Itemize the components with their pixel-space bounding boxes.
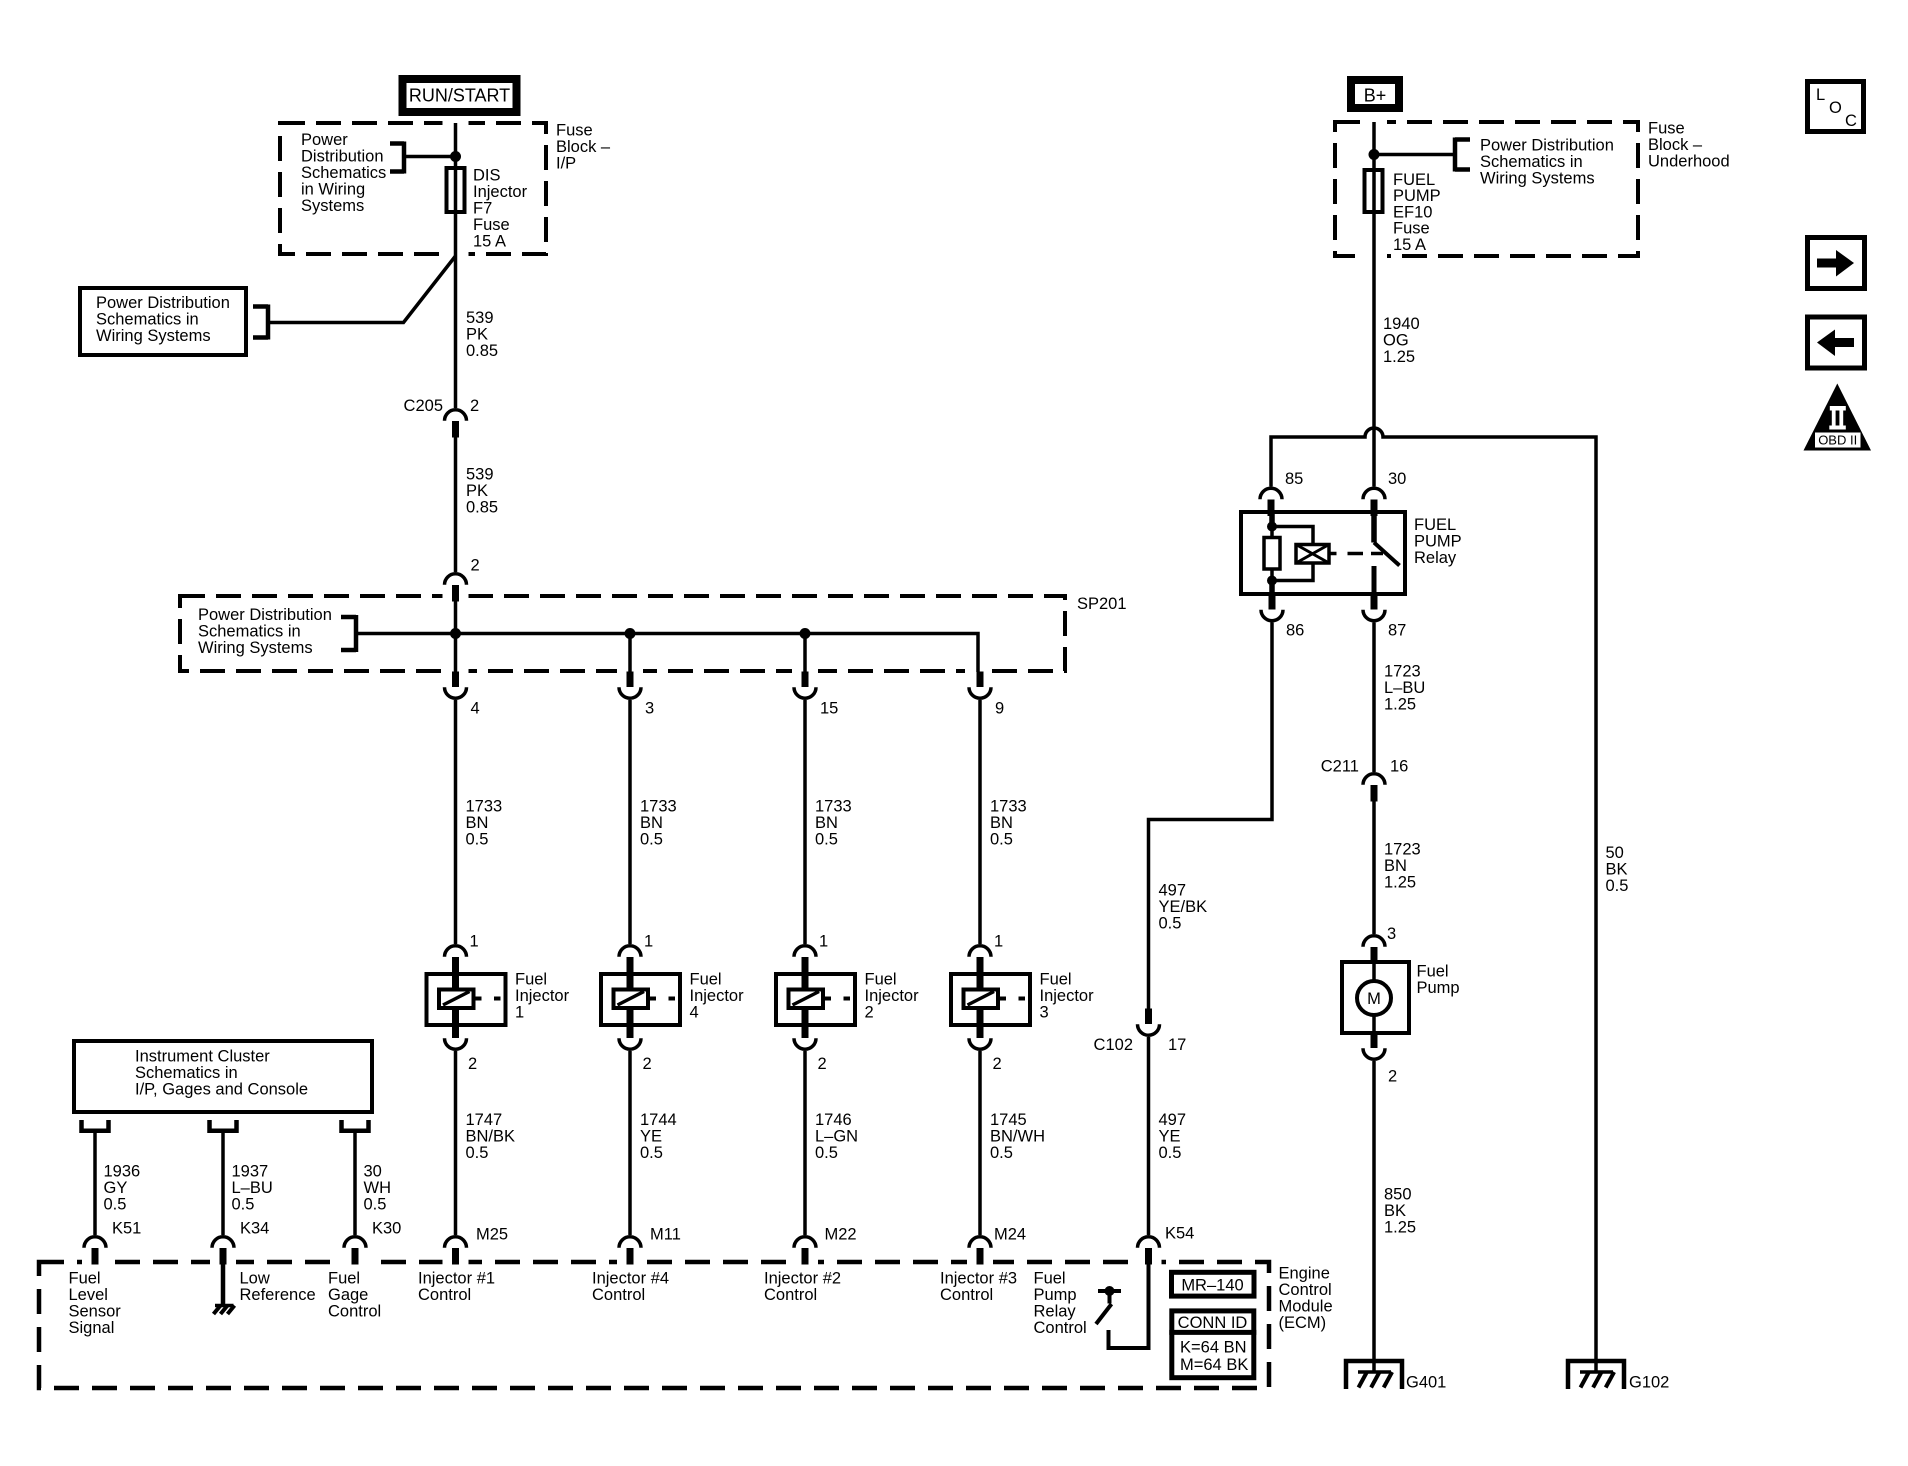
svg-text:Fuel: Fuel <box>328 1270 360 1288</box>
wire <box>978 700 982 944</box>
fuse EF10 FUEL PUMP 15A <box>1365 170 1383 212</box>
svg-text:0.5: 0.5 <box>104 1196 127 1214</box>
svg-text:Power Distribution: Power Distribution <box>96 294 230 312</box>
connector ECM pin M22 <box>794 1237 816 1265</box>
wire label 1744 YE 0.5 <box>640 1111 677 1162</box>
legend OBD II triangle <box>1804 384 1872 451</box>
svg-text:Injector: Injector <box>865 987 920 1005</box>
svg-text:Pump: Pump <box>1417 979 1460 997</box>
svg-text:Pump: Pump <box>1034 1286 1077 1304</box>
svg-text:87: 87 <box>1388 622 1406 640</box>
svg-text:2: 2 <box>471 557 480 575</box>
svg-text:BN: BN <box>466 814 489 832</box>
splice bus wire <box>356 634 978 673</box>
svg-text:16: 16 <box>1390 758 1408 776</box>
label ECM pin M25 <box>476 1226 508 1244</box>
svg-text:Control: Control <box>328 1303 381 1321</box>
svg-text:Relay: Relay <box>1414 549 1457 567</box>
splice pack SP201 dashed box <box>180 596 1065 671</box>
wire label 1733 BN 0.5 <box>815 798 852 849</box>
connector ECM pin K54 <box>1138 1237 1160 1265</box>
ECM dashed box <box>39 1262 1269 1388</box>
svg-text:L–BU: L–BU <box>232 1179 273 1197</box>
svg-text:BN: BN <box>640 814 663 832</box>
label ECM pin K51 <box>112 1220 141 1238</box>
svg-text:1: 1 <box>994 933 1003 951</box>
svg-text:RUN/START: RUN/START <box>409 86 510 106</box>
svg-text:M11: M11 <box>650 1226 681 1244</box>
svg-text:0.5: 0.5 <box>815 831 838 849</box>
svg-text:L–GN: L–GN <box>815 1128 858 1146</box>
relay linkage dashes <box>1329 552 1383 556</box>
svg-text:M25: M25 <box>476 1226 508 1244</box>
label pin 1 <box>819 933 828 951</box>
wire label 1746 L–GN 0.5 <box>815 1111 858 1162</box>
connector pin 2 (to SP201) <box>445 574 467 602</box>
wire <box>803 700 807 944</box>
fuel injector 2 <box>776 972 855 1025</box>
svg-text:1733: 1733 <box>815 798 852 816</box>
svg-text:Block –: Block – <box>1648 136 1703 154</box>
svg-text:Injector #4: Injector #4 <box>592 1270 669 1288</box>
svg-text:Injector: Injector <box>690 987 745 1005</box>
junction node <box>625 628 636 639</box>
label pin 2 <box>643 1055 652 1073</box>
svg-text:15 A: 15 A <box>1393 236 1426 254</box>
relay coil (X box) <box>1296 545 1329 564</box>
svg-text:17: 17 <box>1168 1036 1186 1054</box>
svg-text:C: C <box>1845 112 1857 130</box>
connector injector 2 pin 2 <box>794 1023 816 1050</box>
svg-text:30: 30 <box>364 1163 382 1181</box>
relay resistor <box>1264 538 1280 570</box>
svg-text:2: 2 <box>993 1055 1002 1073</box>
label relay pin 85 <box>1285 470 1303 488</box>
connector relay pin 87 <box>1363 594 1385 621</box>
svg-text:PK: PK <box>466 326 488 344</box>
svg-text:0.85: 0.85 <box>466 342 498 360</box>
svg-text:Fuse: Fuse <box>473 216 510 234</box>
svg-text:Level: Level <box>69 1286 108 1304</box>
svg-text:Injector #1: Injector #1 <box>418 1270 495 1288</box>
svg-text:86: 86 <box>1286 622 1304 640</box>
connector C205 pin 2 <box>445 410 467 438</box>
svg-text:BK: BK <box>1606 861 1628 879</box>
svg-text:1.25: 1.25 <box>1384 874 1416 892</box>
bracket (SP201 note) <box>341 615 356 652</box>
fuse F7 DIS Injector 15A <box>447 168 465 212</box>
label fuel pump pin 2 <box>1388 1068 1397 1086</box>
wire label 539 PK 0.85 <box>466 309 498 360</box>
connector injector 1 pin 1 <box>445 946 467 974</box>
fuel injector 3 <box>951 972 1030 1025</box>
svg-text:1733: 1733 <box>640 798 677 816</box>
svg-text:Fuse: Fuse <box>1648 120 1685 138</box>
connector SP201 drop pin 3 <box>619 672 641 699</box>
svg-text:K30: K30 <box>372 1220 401 1238</box>
ground G102 <box>1568 1361 1624 1389</box>
ECM label: Injector #3 Control <box>940 1270 1017 1305</box>
svg-text:1940: 1940 <box>1383 315 1420 333</box>
MR-140 box <box>1172 1272 1255 1296</box>
wire from note to fuse output <box>268 256 456 323</box>
connector injector 4 pin 1 <box>619 946 641 974</box>
svg-text:BN: BN <box>990 814 1013 832</box>
wire <box>353 1133 357 1235</box>
svg-text:L: L <box>1816 86 1825 104</box>
svg-text:Fuse: Fuse <box>556 122 593 140</box>
svg-text:0.5: 0.5 <box>990 831 1013 849</box>
connector injector 1 pin 2 <box>445 1023 467 1050</box>
connector ECM pin K34 <box>212 1237 234 1265</box>
ECM internal driver switch <box>1096 1286 1121 1324</box>
wire <box>1372 623 1376 773</box>
svg-text:85: 85 <box>1285 470 1303 488</box>
svg-text:Injector #2: Injector #2 <box>764 1270 841 1288</box>
svg-text:0.5: 0.5 <box>466 1144 489 1162</box>
wire <box>454 1051 458 1235</box>
wire label 1733 BN 0.5 <box>466 798 503 849</box>
wire label 539 PK 0.85 <box>466 466 498 517</box>
svg-text:1: 1 <box>644 933 653 951</box>
wire <box>454 700 458 944</box>
label ECM pin M11 <box>650 1226 681 1244</box>
wire <box>221 1133 225 1235</box>
label fuel pump pin 3 <box>1387 925 1396 943</box>
connector SP201 drop pin 15 <box>794 672 816 699</box>
svg-text:0.5: 0.5 <box>1159 1144 1182 1162</box>
wire <box>803 1051 807 1235</box>
connector fuel pump pin 2 <box>1363 1033 1385 1060</box>
svg-text:1723: 1723 <box>1384 663 1421 681</box>
svg-text:Injector #3: Injector #3 <box>940 1270 1017 1288</box>
connector C211 pin 16 <box>1363 774 1385 802</box>
label ECM pin M24 <box>994 1226 1026 1244</box>
wire <box>978 1051 982 1235</box>
fuel pump motor M <box>1357 981 1391 1015</box>
label pin 1 <box>994 933 1003 951</box>
svg-text:Control: Control <box>1034 1319 1087 1337</box>
svg-text:Signal: Signal <box>69 1319 115 1337</box>
svg-text:Wiring Systems: Wiring Systems <box>198 639 313 657</box>
ECM title label <box>1279 1265 1333 1333</box>
fuel injector 1 label <box>515 971 570 1022</box>
svg-text:2: 2 <box>470 397 479 415</box>
svg-text:SP201: SP201 <box>1077 595 1127 613</box>
svg-text:3: 3 <box>1040 1004 1049 1022</box>
svg-text:Power Distribution: Power Distribution <box>198 606 332 624</box>
svg-text:Schematics in: Schematics in <box>198 623 301 641</box>
svg-text:30: 30 <box>1388 470 1406 488</box>
power node RUN/START box <box>403 79 517 112</box>
note text: Power Distribution Schematics in Wiring Systems (underhood) <box>1480 137 1614 188</box>
svg-text:539: 539 <box>466 466 494 484</box>
connector relay pin 86 <box>1261 594 1283 621</box>
svg-text:BN/WH: BN/WH <box>990 1128 1045 1146</box>
svg-text:M: M <box>1367 990 1381 1008</box>
svg-text:1.25: 1.25 <box>1384 1219 1416 1237</box>
wire label 1723 L-BU 1.25 <box>1384 663 1425 714</box>
connector SP201 drop pin 9 <box>969 672 991 699</box>
wire <box>1147 1037 1151 1235</box>
fuel injector 2 label <box>865 971 920 1022</box>
ground (low reference, internal) <box>214 1306 235 1315</box>
connector ECM pin K30 <box>344 1237 366 1265</box>
connector injector 3 pin 2 <box>969 1023 991 1050</box>
label ground G401 <box>1406 1374 1446 1392</box>
ECM label: Injector #1 Control <box>418 1270 495 1305</box>
svg-text:0.5: 0.5 <box>1159 915 1182 933</box>
svg-text:Control: Control <box>418 1286 471 1304</box>
bracket (underhood note) <box>1455 138 1470 172</box>
fuel injector 4 <box>601 972 680 1025</box>
svg-text:OG: OG <box>1383 332 1409 350</box>
note box: Power Distribution Schematics in Wiring Systems <box>80 288 246 355</box>
svg-text:15 A: 15 A <box>473 233 506 251</box>
ECM label: Injector #2 Control <box>764 1270 841 1305</box>
legend left arrow box <box>1808 317 1865 368</box>
svg-text:Power: Power <box>301 131 348 149</box>
svg-text:Fuel: Fuel <box>1034 1270 1066 1288</box>
connector SP201 drop pin 4 <box>445 672 467 699</box>
svg-text:YE/BK: YE/BK <box>1159 898 1208 916</box>
svg-text:0.5: 0.5 <box>640 831 663 849</box>
ECM internal wire K54 to switch <box>1109 1262 1149 1348</box>
wire <box>404 155 456 159</box>
fuel injector 1 <box>427 972 506 1025</box>
connector ECM pin M11 <box>619 1237 641 1265</box>
svg-text:1747: 1747 <box>466 1111 503 1129</box>
wire 497 YE/BK <box>1149 623 1273 1010</box>
svg-text:2: 2 <box>643 1055 652 1073</box>
svg-text:1.25: 1.25 <box>1384 696 1416 714</box>
svg-text:Control: Control <box>764 1286 817 1304</box>
svg-text:YE: YE <box>640 1128 662 1146</box>
fuse block Underhood dashed box <box>1335 122 1638 256</box>
wire <box>1372 122 1376 487</box>
svg-text:K51: K51 <box>112 1220 141 1238</box>
svg-text:Injector: Injector <box>1040 987 1095 1005</box>
wire label 1940 OG 1.25 <box>1383 315 1420 366</box>
fuse block I/P label <box>556 122 611 173</box>
SP201 label <box>1077 595 1127 613</box>
wire label 1733 BN 0.5 <box>990 798 1027 849</box>
svg-text:M24: M24 <box>994 1226 1026 1244</box>
svg-text:Instrument Cluster: Instrument Cluster <box>135 1048 270 1066</box>
CONN ID box <box>1169 1311 1256 1378</box>
svg-text:K54: K54 <box>1165 1225 1194 1243</box>
svg-text:3: 3 <box>1387 925 1396 943</box>
relay label <box>1414 516 1462 567</box>
svg-text:M22: M22 <box>825 1226 857 1244</box>
relay FUEL PUMP Relay box <box>1241 512 1405 594</box>
svg-text:B+: B+ <box>1364 86 1387 106</box>
svg-text:1733: 1733 <box>466 798 503 816</box>
svg-text:9: 9 <box>995 700 1004 718</box>
label pin 9 <box>995 700 1004 718</box>
branch wire with hop over B+ feed <box>1271 428 1596 1372</box>
svg-text:BN/BK: BN/BK <box>466 1128 516 1146</box>
svg-text:497: 497 <box>1159 882 1187 900</box>
svg-text:1723: 1723 <box>1384 841 1421 859</box>
label pin 2 <box>818 1055 827 1073</box>
svg-text:1733: 1733 <box>990 798 1027 816</box>
wire label 1745 BN/WH 0.5 <box>990 1111 1045 1162</box>
svg-text:1937: 1937 <box>232 1163 269 1181</box>
svg-text:G102: G102 <box>1629 1374 1669 1392</box>
svg-text:1.25: 1.25 <box>1383 348 1415 366</box>
svg-text:BN: BN <box>1384 857 1407 875</box>
svg-text:Engine: Engine <box>1279 1265 1330 1283</box>
svg-text:Fuel: Fuel <box>690 971 722 989</box>
svg-text:Fuel: Fuel <box>1417 963 1449 981</box>
wire <box>1374 153 1455 157</box>
connector ECM pin M25 <box>445 1237 467 1265</box>
wire label 30 WH 0.5 <box>364 1163 392 1214</box>
wire <box>803 634 807 673</box>
svg-text:in Wiring: in Wiring <box>301 181 365 199</box>
ECM label: Fuel Pump Relay Control <box>1034 1270 1087 1338</box>
svg-text:Relay: Relay <box>1034 1303 1077 1321</box>
svg-text:2: 2 <box>1388 1068 1397 1086</box>
label pin 1 <box>644 933 653 951</box>
label ground G102 <box>1629 1374 1669 1392</box>
svg-text:Fuel: Fuel <box>865 971 897 989</box>
wire <box>454 437 458 572</box>
label relay pin 30 <box>1388 470 1406 488</box>
svg-text:4: 4 <box>690 1004 699 1022</box>
svg-text:Injector: Injector <box>473 183 528 201</box>
ECM label: Fuel Gage Control <box>328 1270 381 1321</box>
label relay pin 87 <box>1388 622 1406 640</box>
svg-text:Schematics: Schematics <box>301 164 386 182</box>
svg-text:Low: Low <box>240 1270 270 1288</box>
label connector C205 pin 2 <box>404 397 480 415</box>
svg-text:4: 4 <box>471 700 480 718</box>
svg-text:0.5: 0.5 <box>1606 877 1629 895</box>
svg-text:Control: Control <box>940 1286 993 1304</box>
fuse block I/P dashed box <box>280 123 546 254</box>
svg-text:I/P: I/P <box>556 155 576 173</box>
fuse block underhood label <box>1648 120 1730 171</box>
connector fuel pump pin 3 <box>1363 936 1385 964</box>
svg-text:WH: WH <box>364 1179 392 1197</box>
svg-text:F7: F7 <box>473 200 492 218</box>
wire crossing gaps <box>82 117 1387 1268</box>
svg-text:GY: GY <box>104 1179 128 1197</box>
svg-text:PK: PK <box>466 482 488 500</box>
label pin 4 <box>471 700 480 718</box>
junction node <box>800 628 811 639</box>
relay switch <box>1374 513 1400 593</box>
svg-text:O: O <box>1829 99 1842 117</box>
svg-text:1936: 1936 <box>104 1163 141 1181</box>
junction node <box>1369 149 1380 160</box>
wire label 1723 BN 1.25 <box>1384 841 1421 892</box>
svg-text:3: 3 <box>645 700 654 718</box>
svg-text:1: 1 <box>819 933 828 951</box>
svg-text:I/P, Gages and Console: I/P, Gages and Console <box>135 1081 308 1099</box>
connector injector 2 pin 1 <box>794 946 816 974</box>
svg-text:DIS: DIS <box>473 167 501 185</box>
wire <box>628 700 632 944</box>
note box: Instrument Cluster Schematics in I/P, Gages and Console <box>74 1041 372 1112</box>
connector relay pin 85 <box>1260 488 1282 516</box>
ground G401 <box>1346 1361 1402 1389</box>
relay coil circuit <box>1272 513 1313 593</box>
svg-text:Fuel: Fuel <box>1040 971 1072 989</box>
svg-text:1744: 1744 <box>640 1111 677 1129</box>
fuse F7 label <box>473 167 528 251</box>
svg-text:L–BU: L–BU <box>1384 679 1425 697</box>
svg-text:Block –: Block – <box>556 138 611 156</box>
ECM label: Fuel Level Sensor Signal <box>69 1270 122 1338</box>
fuel injector 3 label <box>1040 971 1095 1022</box>
connector ECM pin M24 <box>969 1237 991 1265</box>
svg-text:Sensor: Sensor <box>69 1303 122 1321</box>
svg-text:Module: Module <box>1279 1298 1333 1316</box>
svg-text:(ECM): (ECM) <box>1279 1314 1327 1332</box>
junction node <box>450 151 461 162</box>
svg-text:Reference: Reference <box>240 1286 316 1304</box>
svg-text:M=64 BK: M=64 BK <box>1180 1356 1248 1374</box>
svg-text:497: 497 <box>1159 1111 1187 1129</box>
svg-text:1746: 1746 <box>815 1111 852 1129</box>
connector C102 pin 17 <box>1138 1009 1160 1036</box>
svg-text:2: 2 <box>818 1055 827 1073</box>
note text: Power Distribution Schematics in Wiring Systems (fuse block I/P) <box>301 131 386 215</box>
ECM label: Low Reference <box>240 1270 316 1305</box>
label ECM pin K54 <box>1165 1225 1194 1243</box>
wire label 1747 BN/BK 0.5 <box>466 1111 516 1162</box>
wire <box>93 1133 97 1235</box>
wire <box>628 634 632 673</box>
svg-text:C211: C211 <box>1321 758 1359 776</box>
svg-text:OBD II: OBD II <box>1818 433 1857 448</box>
svg-text:Schematics in: Schematics in <box>1480 153 1583 171</box>
component stub (K34) <box>210 1120 237 1131</box>
wire label 1936 GY 0.5 <box>104 1163 141 1214</box>
legend right arrow box <box>1808 238 1865 289</box>
wire <box>454 123 458 408</box>
power node B+ box <box>1351 80 1399 108</box>
connector injector 4 pin 2 <box>619 1023 641 1050</box>
svg-text:Distribution: Distribution <box>301 148 384 166</box>
svg-text:0.85: 0.85 <box>466 499 498 517</box>
svg-text:G401: G401 <box>1406 1374 1446 1392</box>
label ECM pin M22 <box>825 1226 857 1244</box>
label pin 1 <box>470 933 479 951</box>
svg-text:C102: C102 <box>1094 1036 1133 1054</box>
component stub (K30) <box>342 1120 369 1131</box>
svg-text:1: 1 <box>515 1004 524 1022</box>
label pin 2 <box>993 1055 1002 1073</box>
wire label 850 BK 1.25 <box>1384 1186 1416 1237</box>
svg-text:0.5: 0.5 <box>232 1196 255 1214</box>
svg-text:Schematics in: Schematics in <box>96 311 199 329</box>
svg-text:Control: Control <box>1279 1281 1332 1299</box>
note text in SP201 <box>198 606 332 657</box>
label relay pin 86 <box>1286 622 1304 640</box>
legend LOC box <box>1808 82 1864 132</box>
svg-text:YE: YE <box>1159 1128 1181 1146</box>
svg-text:0.5: 0.5 <box>815 1144 838 1162</box>
svg-text:Wiring Systems: Wiring Systems <box>1480 170 1595 188</box>
connector relay pin 30 <box>1363 488 1385 516</box>
bracket (power distribution note) <box>253 305 268 340</box>
svg-text:2: 2 <box>865 1004 874 1022</box>
wire <box>628 1051 632 1235</box>
